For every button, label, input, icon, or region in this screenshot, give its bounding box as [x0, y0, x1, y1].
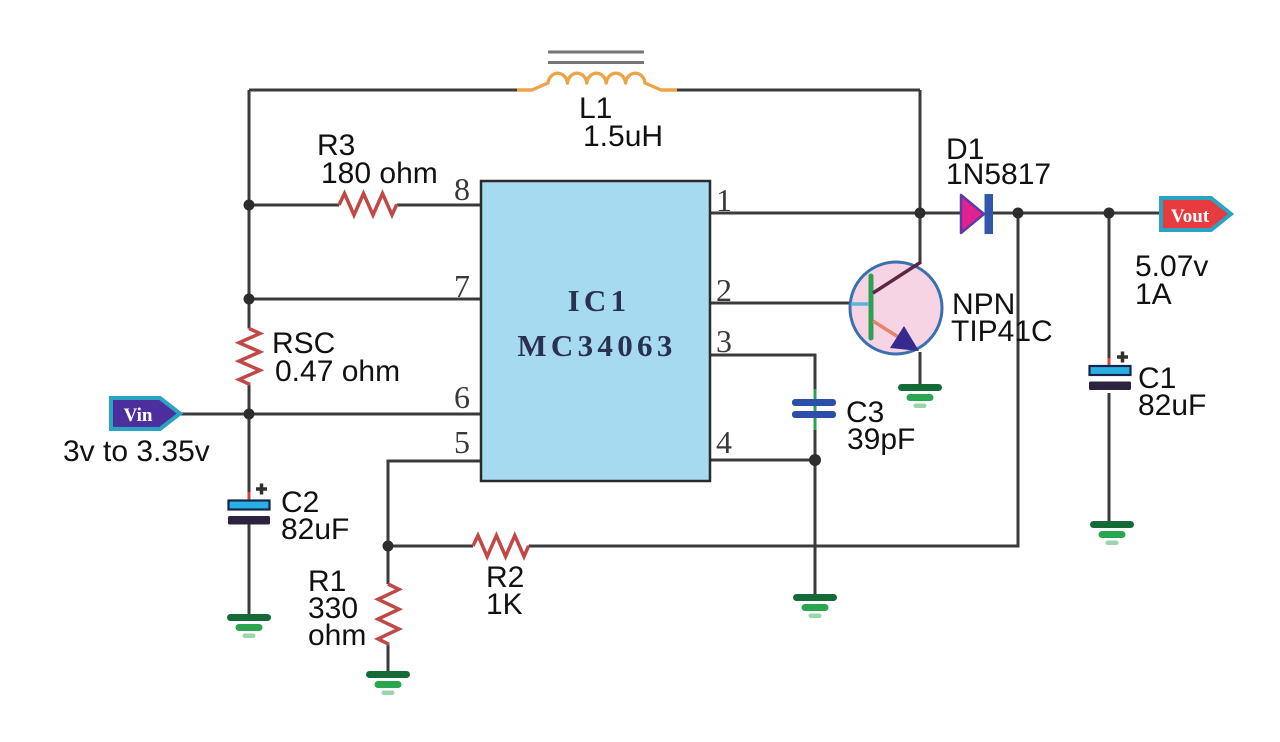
- transistor Q1 base bar: [869, 276, 874, 338]
- svg-text:TIP41C: TIP41C: [951, 315, 1053, 348]
- transistor Q1 base lead: [851, 302, 869, 306]
- wire pin 8 horizontal: [249, 204, 481, 207]
- wire pin 6 horizontal from Vin: [180, 413, 481, 416]
- node junction R1 / R2 / pin 5: [383, 541, 394, 552]
- capacitor C2 polarity red tick: [248, 492, 251, 500]
- transistor Q1 emitter lead: [873, 321, 903, 340]
- ground below R1: [366, 671, 410, 695]
- svg-text:82uF: 82uF: [1138, 389, 1206, 422]
- wire diode cathode to Vout: [993, 212, 1160, 215]
- svg-text:2: 2: [716, 272, 732, 308]
- wire pin 7 horizontal: [249, 298, 481, 301]
- wire R1 leads: [387, 546, 390, 673]
- wire collector branch vertical: [919, 90, 922, 263]
- wire left rail vertical (Vin rail): [248, 90, 251, 616]
- svg-text:5: 5: [454, 424, 470, 460]
- wire C3 node down to ground: [814, 429, 817, 596]
- wire feedback bottom rail: [388, 213, 1018, 546]
- svg-text:1: 1: [716, 182, 732, 218]
- capacitor C3 bottom plate: [792, 411, 836, 418]
- node junction pin1 / collector / top rail: [915, 208, 926, 219]
- svg-text:8: 8: [454, 171, 470, 207]
- capacitor C2 top plate: [229, 501, 270, 510]
- svg-text:1N5817: 1N5817: [946, 158, 1051, 191]
- node junction left rail / pin 7: [244, 294, 255, 305]
- ground below C2: [227, 614, 271, 638]
- svg-text:180 ohm: 180 ohm: [321, 157, 438, 190]
- diode D1 anode triangle: [961, 195, 984, 233]
- svg-text:3v to 3.35v: 3v to 3.35v: [63, 435, 210, 468]
- svg-text:ohm: ohm: [308, 619, 366, 652]
- diode D1 cathode bar: [985, 194, 994, 234]
- inductor L1 core lines: [548, 52, 644, 63]
- capacitor C2 plus sign: [256, 484, 267, 495]
- wire pin 1 to diode anode: [710, 212, 960, 215]
- capacitor C1 polarity red tick: [1108, 358, 1111, 366]
- wire pin 2 to transistor base: [710, 302, 852, 305]
- ground below C1: [1090, 521, 1134, 545]
- wire emitter to ground: [919, 352, 922, 386]
- resistor R2: [473, 536, 529, 557]
- node junction left rail / pin 8: [244, 200, 255, 211]
- resistor RSC: [239, 329, 260, 385]
- capacitor C3 wire (green lead): [814, 389, 817, 430]
- svg-text:39pF: 39pF: [847, 423, 915, 456]
- capacitor C1 plus sign: [1117, 352, 1128, 363]
- svg-text:3: 3: [716, 323, 732, 359]
- wire pin 5 elbow down to R1/R2 node: [388, 461, 481, 546]
- ground below transistor emitter: [898, 384, 942, 408]
- transistor Q1 emitter arrowhead: [890, 326, 919, 351]
- wire pin 3 elbow to C3: [710, 355, 815, 391]
- svg-text:82uF: 82uF: [281, 513, 349, 546]
- svg-text:4: 4: [716, 424, 732, 460]
- svg-text:1A: 1A: [1135, 278, 1172, 311]
- node junction left rail / pin 6 (Vin): [244, 409, 255, 420]
- wire C1 branch vertical: [1108, 213, 1111, 523]
- capacitor C1 bottom plate: [1089, 382, 1131, 391]
- node Vin tag: [111, 398, 180, 429]
- capacitor C2 bottom plate: [228, 516, 270, 525]
- capacitor C3 top plate: [792, 399, 836, 406]
- resistor R3: [339, 194, 397, 216]
- node Vout tag: [1161, 198, 1231, 230]
- svg-text:1.5uH: 1.5uH: [583, 120, 663, 153]
- capacitor C1 top plate: [1090, 366, 1131, 375]
- svg-text:0.47 ohm: 0.47 ohm: [275, 355, 400, 388]
- node junction diode cathode / feedback: [1013, 208, 1024, 219]
- inductor L1 winding: [517, 73, 677, 90]
- node junction pin 4 / C3 / ground: [809, 454, 821, 466]
- wire pin 4 horizontal: [710, 459, 815, 462]
- svg-text:6: 6: [454, 379, 470, 415]
- transistor Q1 body circle: [850, 262, 942, 354]
- svg-text:Vin: Vin: [124, 405, 153, 426]
- op-amp IC1 MC34063 body: [481, 181, 710, 481]
- svg-text:MC34063: MC34063: [517, 328, 676, 363]
- resistor R1: [378, 584, 399, 644]
- svg-text:IC1: IC1: [568, 283, 631, 318]
- transistor Q1 collector lead: [873, 262, 921, 293]
- svg-text:1K: 1K: [486, 588, 523, 621]
- node junction C1 branch: [1104, 208, 1115, 219]
- svg-text:7: 7: [454, 268, 470, 304]
- wire top rail from left rail to collector branch: [249, 89, 920, 92]
- svg-text:Vout: Vout: [1171, 206, 1210, 227]
- ground below C3 node: [793, 594, 837, 618]
